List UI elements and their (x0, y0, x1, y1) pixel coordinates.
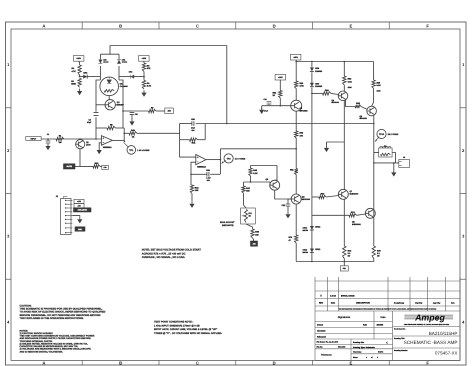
transistor Q6 vbe multiplier (266, 178, 280, 190)
svg-text:REV: REV (319, 302, 324, 305)
svg-text:-15V: -15V (167, 110, 172, 113)
wire bias top (251, 165, 278, 167)
svg-text:2) UNLESS NOTED, RESISTOR VALU: 2) UNLESS NOTED, RESISTOR VALUES IN OHMS… (20, 342, 89, 345)
svg-text:D: D (273, 23, 276, 28)
resistor R41 (190, 138, 198, 145)
svg-text:C36: C36 (191, 118, 196, 121)
svg-text:47K: 47K (147, 67, 151, 70)
svg-text:3: 3 (462, 234, 465, 239)
wire Q4 emitter down (346, 100, 356, 107)
svg-text:4.7K: 4.7K (72, 70, 77, 73)
capacitor C38 (206, 169, 211, 177)
wire Q3 emitter rail (295, 111, 297, 131)
svg-text:R8: R8 (147, 82, 150, 85)
node feedback at output rail (373, 123, 375, 125)
svg-text:1.40 mVRMS: 1.40 mVRMS (137, 149, 150, 152)
wire bias rail to R73 (312, 196, 319, 198)
svg-text:R60: R60 (300, 82, 305, 85)
wire U1A + input to ground (99, 143, 101, 148)
wire FB1 stub (343, 262, 345, 266)
svg-text:+15V: +15V (278, 76, 283, 79)
resistor R3 (71, 78, 81, 87)
svg-text:1: 1 (366, 356, 367, 359)
resistor R69 (372, 80, 381, 89)
svg-text:INPUT JACK. 120VAC LINE, VOLU: INPUT JACK. 120VAC LINE, VOLUME & LEVEL … (154, 328, 218, 331)
svg-text:NOTES:: NOTES: (20, 329, 29, 332)
svg-text:1/2W: 1/2W (348, 86, 352, 89)
wire out junction down (219, 160, 221, 175)
ground at C22 (287, 212, 289, 214)
wire C1 stub (47, 139, 49, 141)
svg-text:MUTE: MUTE (67, 165, 73, 168)
wire rail drop to diode loop (109, 46, 111, 55)
wire trimpot to R68 (246, 224, 253, 229)
transistor Q3 (291, 100, 309, 112)
svg-text:NE5532A: NE5532A (103, 146, 112, 149)
transistor Q7 MJE15030 (338, 189, 348, 199)
resistor R62 (295, 131, 305, 138)
svg-text:TP10: TP10 (379, 133, 385, 136)
node +50V branch (295, 61, 297, 63)
label box +15V (power) (275, 74, 286, 80)
svg-text:ACROSS R72 = R75 , 15 +20 mV: ACROSS R72 = R75 , 15 +20 mV DC (142, 252, 186, 255)
svg-text:Date: Date (451, 302, 455, 305)
svg-text:CR6: CR6 (122, 59, 125, 62)
svg-text:R41: R41 (192, 142, 197, 145)
resistor R6 (142, 63, 151, 72)
op-amp U1B (196, 155, 207, 169)
transistor Q1 mute JFET (76, 140, 92, 149)
svg-text:4: 4 (7, 319, 10, 324)
resistor R73 (319, 193, 326, 199)
caution block (20, 304, 106, 320)
ground at speaker jack (393, 170, 395, 172)
svg-text:1M: 1M (59, 141, 62, 144)
opto-isolator U2 vactrol (100, 77, 128, 96)
resistor R1 (56, 135, 64, 144)
svg-text:CAPACITOR VALUES IN MICROFARAD: CAPACITOR VALUES IN MICROFARADS, 50V 10%… (20, 345, 79, 348)
wire rail to Q9 (295, 175, 297, 195)
wire R75 bottom (373, 259, 375, 262)
svg-text:R61: R61 (273, 91, 278, 94)
svg-text:F: F (426, 361, 429, 366)
svg-text:MJE15031: MJE15031 (352, 223, 361, 226)
svg-text:BIAS ADJUST: BIAS ADJUST (220, 221, 235, 224)
wire CR3 left stub (80, 76, 84, 78)
svg-text:5W: 5W (377, 255, 380, 258)
ground at R42 (191, 201, 193, 203)
test point conditions note (154, 321, 222, 336)
svg-text:NE5532A: NE5532A (197, 165, 206, 168)
svg-text:28.3 VRMS: 28.3 VRMS (388, 133, 399, 136)
wire bottom rail (296, 261, 374, 263)
wire CR9 down (311, 88, 313, 94)
svg-text:4.07 VRMS: 4.07 VRMS (235, 157, 246, 160)
svg-text:Chg'd By: Chg'd By (415, 302, 422, 305)
svg-text:MPSA56: MPSA56 (300, 110, 309, 113)
svg-text:CR3: CR3 (83, 72, 88, 75)
svg-text:Q2: Q2 (117, 101, 121, 104)
wire fb box bottom right (198, 139, 206, 141)
svg-text:E: E (350, 361, 353, 366)
wire rail corner to R69 (373, 62, 375, 81)
node C5 junction (122, 110, 124, 112)
wire to C5 (123, 110, 132, 112)
wire Q2 collector (115, 104, 123, 106)
wire R61 to Q3 base (280, 98, 290, 106)
svg-text:C38: C38 (206, 169, 211, 172)
wire fb box top (180, 123, 192, 125)
svg-text:B: B (119, 361, 122, 366)
wire opto left rail (96, 80, 100, 112)
svg-text:RJS: RJS (363, 323, 368, 326)
wire R67 to trimpot (244, 193, 247, 208)
resistor R60 (295, 81, 305, 89)
svg-text:MPSA56: MPSA56 (360, 117, 367, 120)
svg-text:E: E (350, 23, 353, 28)
svg-text:DESCRIPTION: DESCRIPTION (356, 302, 370, 305)
wire CR4 left (119, 76, 131, 78)
label box +15V (left) (73, 56, 84, 62)
svg-text:Drawn: Drawn (317, 323, 324, 326)
node R42 tap (190, 174, 192, 176)
resistor R5 (107, 124, 116, 130)
label box FB1 (340, 266, 348, 271)
svg-text:1400 FERGUSON AVENUE, ST. LOUI: 1400 FERGUSON AVENUE, ST. LOUIS, MO 6313… (404, 323, 449, 326)
resistor R72 (343, 246, 353, 259)
wire R62 down rail (295, 138, 297, 169)
trimpot R71 bias adjust (241, 208, 256, 224)
svg-text:150K: 150K (71, 83, 76, 86)
label box C30 (102, 165, 109, 169)
svg-text:2.2K: 2.2K (253, 172, 258, 175)
resistor R64 (323, 89, 332, 95)
svg-text:L1: L1 (384, 145, 386, 148)
svg-text:BA210/115HP: BA210/115HP (429, 331, 458, 336)
wire R67 stub up (243, 182, 245, 186)
ground at U1A (98, 148, 100, 150)
resistor R7 (149, 107, 157, 113)
svg-text:D: D (273, 361, 276, 366)
ground at J2 (79, 217, 81, 219)
svg-text:C: C (386, 341, 388, 344)
wire rail to R63 (343, 62, 345, 77)
capacitor C21 (264, 98, 272, 112)
wire to power amp (220, 148, 296, 150)
wire Q6 emitter (275, 190, 292, 199)
wire U1A output (112, 139, 124, 141)
wire R68 to label (253, 238, 254, 241)
wire Q7 branch (343, 101, 345, 191)
resistor R42 (190, 185, 199, 194)
svg-text:R66: R66 (253, 169, 258, 172)
svg-text:R42: R42 (195, 186, 200, 189)
svg-text:TP2: TP2 (227, 157, 232, 160)
svg-text:C22: C22 (282, 204, 287, 207)
svg-text:5W: 5W (348, 255, 351, 258)
resistor R68 (251, 229, 260, 238)
resistor R63b (290, 169, 298, 175)
transistor Q9 driver (291, 194, 310, 204)
wire drop to diodes (311, 62, 313, 68)
svg-text:1K: 1K (273, 94, 276, 97)
svg-text:TOUCHING INTERNAL PARTS!: TOUCHING INTERNAL PARTS! (20, 340, 53, 343)
svg-text:R67: R67 (246, 187, 251, 190)
svg-text:J4: J4 (403, 156, 406, 159)
wire stage1 to stage2 (137, 132, 180, 134)
svg-text:2: 2 (462, 148, 465, 153)
title block (315, 277, 460, 360)
wire R66 to mid wire (250, 176, 252, 182)
svg-text:1: 1 (462, 62, 465, 67)
wire R6 bottom node (143, 72, 145, 81)
wire R7 to -15V (156, 110, 165, 112)
svg-text:C30: C30 (103, 166, 106, 169)
svg-text:4/19/99: 4/19/99 (377, 323, 385, 326)
svg-text:R6x: R6x (290, 169, 295, 172)
wire bias rail to R74 (312, 214, 349, 216)
svg-text:File Name: 7in_ba_BL.SRO: File Name: 7in_ba_BL.SRO (317, 341, 339, 344)
svg-text:1K: 1K (132, 135, 135, 138)
svg-text:9.1K: 9.1K (348, 80, 353, 83)
svg-text:-15V: -15V (77, 205, 81, 208)
svg-text:+15V: +15V (77, 200, 82, 203)
wire CR3 to opto loop (87, 76, 100, 78)
diode CR8 (310, 67, 323, 73)
svg-text:2: 2 (377, 356, 378, 359)
svg-text:MJE15030: MJE15030 (350, 192, 359, 195)
svg-text:0: 0 (320, 295, 322, 298)
resistor R70 (289, 235, 298, 243)
wire fb box right edge (204, 124, 206, 140)
svg-text:AND DISCHARGE POWER SUPPLY FIL: AND DISCHARGE POWER SUPPLY FILTER CAPACI… (20, 337, 92, 340)
wire opto right rail lower (122, 111, 124, 128)
connector J2 (56, 195, 73, 235)
svg-text:THIS UNIT CONTAINS DANGEROUS V: THIS UNIT CONTAINS DANGEROUS VOLTAGE. DI… (20, 335, 95, 338)
wire output to feedback rail (123, 128, 125, 140)
test point TP10 (375, 129, 399, 141)
svg-text:Q1: Q1 (86, 141, 90, 144)
wire rail to L1 (374, 152, 379, 154)
wire Q5 collector up (372, 89, 374, 107)
svg-text:R69: R69 (377, 82, 382, 85)
svg-text:R75: R75 (377, 250, 382, 253)
wire fb box top right feedback from output (196, 123, 374, 125)
label box -15V (165, 108, 174, 114)
wire op-amp U1A inv input (80, 138, 96, 140)
svg-text:4.7K: 4.7K (147, 85, 152, 88)
wire ground branch (326, 142, 328, 146)
svg-text:Signatures: Signatures (338, 316, 351, 319)
wire CR13 to bottom rail (311, 253, 313, 262)
wire R66 stub (250, 166, 252, 169)
node speaker line (393, 162, 395, 164)
svg-text:of: of (371, 356, 373, 359)
svg-text:3: 3 (7, 234, 10, 239)
svg-text:Ampeg: Ampeg (414, 313, 445, 323)
svg-text:Drawing Type: Schematic: Drawing Type: Schematic (353, 346, 375, 349)
svg-text:View Date:: View Date: (353, 351, 362, 354)
wire Q9 base cap (288, 199, 291, 204)
svg-text:CR13: CR13 (315, 248, 321, 251)
wire bias mid (244, 181, 271, 183)
wire L1 to speaker line (392, 153, 395, 163)
resistor R8 (142, 80, 151, 89)
wire to R7 (132, 110, 149, 112)
svg-text:A: A (42, 361, 45, 366)
svg-text:C: C (196, 361, 199, 366)
ground at R3 (79, 89, 81, 91)
node diode branch (311, 61, 313, 63)
input label box J1 (26, 137, 41, 141)
resistor R40 (129, 129, 137, 138)
wire CR4 right (134, 76, 144, 78)
node input junction (47, 138, 49, 140)
svg-text:C1: C1 (47, 133, 49, 136)
wire J2 ground stub (72, 216, 79, 217)
svg-text:SBOARD: SBOARD (338, 346, 346, 349)
speaker jack J4 (399, 156, 410, 167)
wire +15V box branch (279, 80, 281, 91)
svg-text:1N4933: 1N4933 (315, 70, 323, 73)
wire bias right leg (275, 166, 277, 181)
svg-text:Drawing Number: Drawing Number (394, 349, 408, 352)
svg-text:R6: R6 (147, 65, 150, 68)
svg-text:C21: C21 (264, 98, 267, 101)
wire mute to C30 (100, 165, 102, 167)
wire +50V rail horizontal (296, 61, 373, 63)
wire CR8-CR9 (311, 72, 313, 83)
diode CR3 (83, 72, 88, 79)
wire bias mid to Q6 base (269, 182, 271, 185)
svg-text:R62: R62 (300, 132, 305, 135)
diode CR4 (129, 71, 135, 79)
node bias mid (250, 181, 252, 183)
svg-text:App'd By: App'd By (433, 302, 440, 305)
wire stage1 out short (124, 132, 129, 134)
svg-text:INPUT: INPUT (31, 138, 38, 141)
wire R63 to Q4 (343, 85, 345, 91)
svg-text:R3: R3 (71, 80, 74, 83)
resistor R4 (72, 65, 82, 75)
wire R72 bottom (343, 259, 345, 262)
transistor Q5 (367, 106, 377, 116)
svg-text:1) CAUTION: SHOCK HAZARD!: 1) CAUTION: SHOCK HAZARD! (20, 332, 53, 335)
svg-text:4: 4 (462, 319, 465, 324)
svg-text:CLM6000: CLM6000 (120, 85, 128, 88)
svg-text:TONES @ “0” , DC VOLTAGES WITH: TONES @ “0” , DC VOLTAGES WITH NO SIGNAL… (154, 332, 222, 335)
svg-text:1N4933: 1N4933 (315, 85, 323, 88)
svg-text:330: 330 (246, 189, 250, 192)
wire input line (41, 138, 79, 140)
ground at C5 (131, 119, 133, 121)
svg-text:9.1K: 9.1K (377, 84, 382, 87)
svg-text:TP1: TP1 (129, 149, 134, 152)
wire R64 to Q4 (331, 93, 339, 94)
wire node to C21 (262, 105, 281, 107)
capacitor C1 (46, 141, 51, 143)
resistor R74 (349, 211, 357, 217)
svg-text:R68: R68 (255, 231, 260, 234)
svg-text:RCPIC: RCPIC (378, 351, 384, 354)
svg-text:CR4: CR4 (129, 71, 133, 74)
svg-text:J2: J2 (56, 195, 59, 198)
svg-text:THAT EXPLAINED IN THE OPERATIN: THAT EXPLAINED IN THE OPERATING INSTRUCT… (20, 317, 85, 320)
wire opto left rail lower (95, 117, 97, 128)
svg-text:THE INFORMATION CONTAINED IN T: THE INFORMATION CONTAINED IN THIS DRAWIN… (339, 309, 437, 311)
wire R70 to bottom rail (295, 243, 297, 262)
svg-text:3) VOLTAGES ARE MEASURED WITH: 3) VOLTAGES ARE MEASURED WITH 1 MEGOHM O… (20, 348, 92, 351)
wire opto bottom right (116, 127, 125, 129)
svg-text:CR8: CR8 (315, 67, 320, 70)
svg-text:(SEE NOTE): (SEE NOTE) (222, 224, 234, 227)
capacitor C36 (191, 118, 196, 126)
svg-text:+50V: +50V (293, 56, 298, 59)
wire R42 to ground (191, 194, 193, 202)
node FB1 (344, 261, 346, 263)
wire Q1 gate to mute line (79, 149, 81, 167)
wire speaker line (374, 162, 399, 164)
node CR13 rail (311, 261, 313, 263)
resistor R63 (343, 76, 353, 85)
svg-text:Checked: Checked (317, 329, 326, 332)
svg-text:TEST POINT CONDITIONS NOTE :: TEST POINT CONDITIONS NOTE : (154, 321, 193, 324)
svg-text:07S457-XX: 07S457-XX (435, 351, 458, 356)
ground arrow at C21 (261, 107, 263, 109)
svg-text:MPSA06: MPSA06 (302, 198, 311, 201)
diode loop CR5 CR6 (98, 54, 127, 80)
wire output rail (373, 116, 375, 246)
svg-text:R63: R63 (348, 78, 353, 81)
node output rail bottom (373, 162, 375, 164)
wire R4 to CR3 node (79, 75, 81, 77)
svg-text:C5: C5 (135, 113, 138, 116)
label box PWR MUTE at J2 (74, 208, 92, 212)
svg-text:1-4-02: 1-4-02 (330, 294, 337, 297)
label box GND at J2 (75, 227, 85, 231)
svg-text:R5: R5 (110, 124, 113, 127)
wire opto bottom left (96, 127, 107, 129)
resistor R66 (249, 168, 258, 176)
wire jack ground (393, 163, 395, 170)
svg-text:AND 10 MEGOHM DIGITAL VOLTMETE: AND 10 MEGOHM DIGITAL VOLTMETER. (20, 350, 64, 353)
op-amp U1A (101, 136, 112, 149)
svg-text:Ecn(s)/Ecn(s): Ecn(s)/Ecn(s) (394, 302, 405, 305)
node power amp in (295, 148, 297, 150)
svg-text:FB1: FB1 (343, 267, 346, 270)
wire +15V to R4a (78, 61, 81, 65)
svg-text:47pF: 47pF (87, 121, 92, 124)
svg-text:Q6: Q6 (266, 178, 270, 181)
svg-text:R7: R7 (151, 107, 154, 110)
svg-text:47uF: 47uF (264, 110, 268, 113)
wire out junction up (219, 149, 221, 160)
svg-text:CR9: CR9 (315, 82, 320, 85)
node Q3 base (280, 105, 282, 107)
transistor Q4 (338, 91, 348, 101)
wire +50V to R60 (295, 62, 297, 82)
svg-text:J175: J175 (86, 144, 91, 147)
svg-text:R70: R70 (289, 236, 294, 239)
svg-text:Q9: Q9 (302, 195, 306, 198)
wire mute line (75, 165, 93, 167)
resistor R65 (355, 102, 361, 108)
test point TP2 (222, 154, 246, 164)
diode CR12 (310, 226, 321, 230)
ground at C1 (47, 144, 49, 146)
wire R73 to Q7 (326, 196, 339, 198)
svg-text:NOTE: SET BIAS VOLTAGE FROM CO: NOTE: SET BIAS VOLTAGE FROM COLD START (142, 248, 202, 251)
